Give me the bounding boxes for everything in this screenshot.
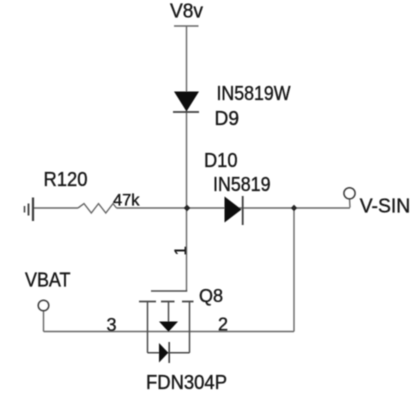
svg-text:V8v: V8v: [170, 1, 203, 23]
svg-text:IN5819W: IN5819W: [217, 83, 291, 105]
svg-text:R120: R120: [44, 169, 88, 191]
svg-text:D10: D10: [204, 150, 238, 172]
svg-text:3: 3: [107, 315, 117, 335]
svg-text:IN5819: IN5819: [213, 174, 271, 196]
svg-text:VBAT: VBAT: [25, 270, 71, 292]
svg-text:D9: D9: [215, 108, 240, 130]
svg-text:1: 1: [171, 246, 190, 255]
svg-text:V-SIN: V-SIN: [360, 196, 411, 218]
svg-text:47k: 47k: [113, 192, 140, 210]
svg-text:Q8: Q8: [199, 286, 223, 306]
svg-text:FDN304P: FDN304P: [146, 372, 227, 394]
svg-text:2: 2: [218, 315, 228, 335]
